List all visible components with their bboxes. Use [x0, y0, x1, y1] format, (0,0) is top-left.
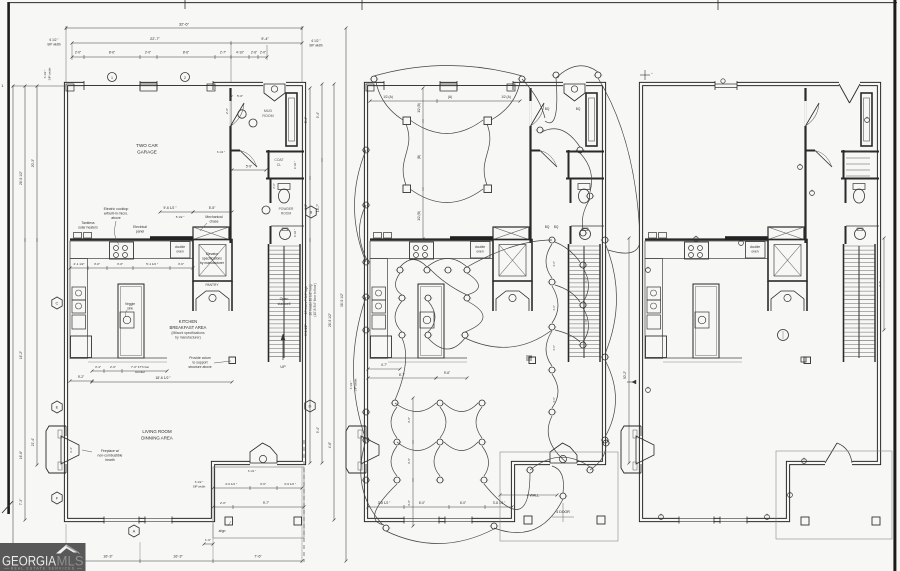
- right plan outlet symbols: [646, 117, 870, 520]
- front entry door symbol: [563, 81, 586, 88]
- garage door marker 1: [108, 73, 117, 82]
- svg-text:REAL ESTATE SERVICES: REAL ESTATE SERVICES: [11, 567, 75, 571]
- bar counter edge: [88, 357, 167, 359]
- mechanical chase: [768, 227, 804, 240]
- right porch columns: [801, 517, 809, 525]
- svg-text:8'-4": 8'-4": [304, 117, 308, 123]
- veggie sink: [695, 312, 709, 328]
- svg-text:9'-6 1/2": 9'-6 1/2": [304, 324, 308, 336]
- svg-text:3'-6": 3'-6": [178, 262, 184, 266]
- powder vanity counter: [571, 225, 604, 227]
- svg-text:6'-0": 6'-0": [460, 501, 466, 505]
- svg-text:7'-0" 47"h bar: 7'-0" 47"h bar: [131, 365, 149, 369]
- entry porch marker: [238, 110, 246, 118]
- svg-text:(10'-8 3/4" floor to floor): (10'-8 3/4" floor to floor): [313, 283, 317, 316]
- svg-text:2'-1 1/2": 2'-1 1/2": [74, 262, 85, 266]
- middle porch columns: [524, 516, 532, 524]
- double oven: [746, 242, 766, 259]
- kitchen counter back run: [70, 241, 193, 259]
- svg-text:1'-6": 1'-6": [205, 538, 211, 542]
- svg-text:COAT: COAT: [274, 158, 283, 162]
- svg-text:Veggie: Veggie: [125, 302, 135, 306]
- svg-text:1/2 (A): 1/2 (A): [383, 95, 393, 99]
- left border diagonal end mark: [2, 501, 13, 513]
- svg-text:3'-6": 3'-6": [260, 482, 266, 486]
- rear door opening: [250, 460, 277, 466]
- garage / hall interior wall: [529, 88, 531, 243]
- right porch outline: [776, 451, 892, 539]
- garage / kitchen wall: [70, 238, 193, 240]
- mud room door leaf: [531, 103, 545, 126]
- svg-text:16'-3": 16'-3": [103, 555, 113, 559]
- dishwasher: [647, 315, 661, 329]
- staircase treads: [844, 246, 875, 357]
- svg-text:GARAGE: GARAGE: [137, 150, 157, 155]
- svg-text:BQ: BQ: [545, 107, 550, 111]
- svg-text:4'-6": 4'-6": [552, 305, 556, 311]
- garage ceiling light 3: [403, 185, 411, 193]
- hex marker D: [305, 400, 315, 412]
- svg-text:2'-0": 2'-0": [75, 51, 81, 55]
- electrical wiring curves: [354, 66, 641, 544]
- hall closet door leaf: [815, 151, 832, 168]
- middle living vertical dim: [412, 398, 414, 526]
- cooktop appliance: [410, 242, 434, 259]
- svg-text:9'-6 1/2 ": 9'-6 1/2 ": [164, 206, 178, 210]
- svg-text:3'-0 1/2 ": 3'-0 1/2 ": [284, 482, 296, 486]
- fireplace: [346, 426, 366, 473]
- top border tick 2: [361, 0, 363, 10]
- kitchen sinks: [372, 287, 386, 300]
- garage corner dims: [230, 97, 232, 126]
- sheet left border line: [7, 2, 10, 514]
- kitchen counter back run: [370, 241, 493, 259]
- overall width dim 32'-6": [66, 27, 302, 29]
- svg-text:9'-4": 9'-4": [261, 37, 269, 41]
- stair hall wall: [268, 244, 270, 362]
- left porch roof dashed line: [303, 440, 305, 562]
- staircase side rails: [874, 244, 876, 362]
- staircase treads: [569, 246, 600, 357]
- dim extension verticals top: [65, 28, 67, 82]
- middle porch outline: [500, 452, 618, 541]
- triple line symbol: [526, 355, 532, 357]
- mud room door leaf: [231, 103, 245, 126]
- svg-text:3'-8 1/2 ": 3'-8 1/2 ": [493, 501, 506, 505]
- svg-text:2'-0": 2'-0": [110, 365, 116, 369]
- rear door symbol: [250, 443, 277, 463]
- tankless water heaters: [649, 233, 657, 239]
- mud room bench cabinet: [286, 93, 297, 146]
- svg-text:by manufacturer): by manufacturer): [175, 336, 201, 340]
- svg-text:4'-0": 4'-0": [304, 204, 308, 210]
- powder door marker: [262, 206, 270, 214]
- electrical outlets middle plan: [362, 72, 610, 531]
- elevator shaft: [768, 240, 807, 282]
- kitchen side counter: [370, 259, 388, 359]
- entry hall wall: [806, 150, 815, 152]
- svg-text:2'-6": 2'-6": [272, 183, 276, 189]
- svg-text:3'-6": 3'-6": [407, 417, 411, 423]
- electrical panel (dark): [725, 236, 768, 240]
- svg-text:(A): (A): [448, 95, 452, 99]
- kitchen sinks: [647, 287, 661, 300]
- bottom dim line: [66, 560, 302, 562]
- svg-text:1/2 (B): 1/2 (B): [417, 211, 421, 221]
- watermark background box: [0, 543, 86, 571]
- powder vanity counter: [271, 225, 304, 227]
- garage / kitchen wall: [645, 238, 768, 240]
- rear windows pair: [104, 517, 139, 523]
- powder room lower wall: [845, 226, 847, 244]
- svg-text:32'-6": 32'-6": [179, 22, 190, 27]
- svg-text:chase: chase: [209, 220, 218, 224]
- bar counter edge: [388, 357, 467, 359]
- double oven: [471, 242, 491, 259]
- left porch columns: [225, 517, 233, 525]
- dim 9'-2": [70, 380, 92, 382]
- hex marker E: [52, 401, 62, 413]
- svg-text:8'-6": 8'-6": [183, 51, 189, 55]
- rear door opening: [825, 460, 852, 466]
- stair hall wall: [568, 244, 570, 362]
- powder room wall: [841, 178, 879, 180]
- svg-text:8'-7": 8'-7": [399, 373, 405, 377]
- svg-text:4'-6": 4'-6": [552, 345, 556, 351]
- svg-text:(Milsork specifications: (Milsork specifications: [171, 331, 204, 335]
- svg-text:4'-0 1/2 ": 4'-0 1/2 ": [225, 482, 237, 486]
- cooktop appliance: [685, 242, 709, 259]
- svg-text:Open: Open: [280, 297, 289, 301]
- right plan linen shelves: [846, 152, 870, 176]
- exterior wall outline: [641, 84, 879, 520]
- svg-text:SIP width: SIP width: [309, 44, 323, 48]
- svg-text:Mechanical: Mechanical: [205, 215, 222, 219]
- svg-text:4'-6": 4'-6": [552, 261, 556, 267]
- kitchen sinks: [72, 287, 86, 300]
- svg-text:specifications: specifications: [202, 257, 222, 261]
- svg-text:9 1/2 ": 9 1/2 ": [293, 161, 297, 169]
- svg-text:Elevator: Elevator: [206, 252, 219, 256]
- pantry door symbol: [196, 291, 229, 311]
- svg-text:double: double: [475, 245, 485, 249]
- powder room wall: [266, 178, 304, 180]
- svg-text:Tankless: Tankless: [81, 221, 94, 225]
- hex marker F: [52, 492, 62, 504]
- top segment dims: [72, 56, 267, 58]
- svg-text:5'-9": 5'-9": [246, 165, 252, 169]
- svg-text:sink: sink: [127, 307, 133, 311]
- garage door opening 1: [384, 81, 440, 88]
- svg-text:non-combustible: non-combustible: [98, 454, 123, 458]
- kitchen dim 9'-6 1/2": [160, 211, 193, 213]
- right vertical dim c: [333, 84, 335, 520]
- svg-text:Fireplace w/: Fireplace w/: [101, 449, 119, 453]
- svg-text:LIVING ROOM: LIVING ROOM: [142, 429, 172, 434]
- svg-text:9'-6": 9'-6": [444, 371, 450, 375]
- column leader: [214, 361, 231, 363]
- svg-text:4'-6": 4'-6": [328, 442, 332, 448]
- svg-text:16'-6": 16'-6": [19, 450, 23, 459]
- rear windows pair: [679, 517, 714, 523]
- right plan left wall tick: [627, 381, 636, 383]
- svg-text:60'-2": 60'-2": [7, 295, 11, 304]
- right plan ceiling fan circle: [778, 330, 789, 341]
- svg-text:6 1/2 ": 6 1/2 ": [43, 70, 47, 79]
- dim 18'-6 1/2": [92, 381, 232, 383]
- rear door symbol: [550, 443, 577, 463]
- svg-text:6 1/2 ": 6 1/2 ": [195, 480, 204, 484]
- svg-text:17 risers 7 3/4" high: 17 risers 7 3/4" high: [304, 286, 308, 314]
- svg-text:UP: UP: [280, 365, 286, 369]
- svg-text:3'-6": 3'-6": [407, 500, 411, 506]
- svg-text:C: C: [56, 301, 59, 306]
- dishwasher: [72, 315, 86, 329]
- svg-text:DINNING AREA: DINNING AREA: [141, 436, 173, 441]
- rear windows pair: [404, 517, 439, 523]
- toilet: [578, 184, 590, 190]
- exterior wall outline: [366, 84, 604, 520]
- staircase side rails: [299, 244, 301, 362]
- toilet: [278, 184, 290, 190]
- svg-text:double: double: [750, 245, 760, 249]
- entry hall wall: [531, 150, 540, 152]
- svg-text:4'-6": 4'-6": [552, 397, 556, 403]
- svg-text:SIP width: SIP width: [48, 67, 52, 80]
- tankless water heaters: [74, 233, 82, 239]
- fireplace leader arrow: [82, 450, 92, 452]
- svg-text:9'-2": 9'-2": [78, 375, 84, 379]
- mech chase leader: [200, 223, 207, 231]
- svg-text:9'-7": 9'-7": [263, 501, 269, 505]
- left vertical dim 2: [24, 86, 26, 520]
- garage door opening 2: [457, 81, 513, 88]
- garage / hall interior wall: [229, 88, 231, 243]
- island cabinet: [118, 284, 144, 358]
- svg-text:3'-4": 3'-4": [95, 365, 101, 369]
- island cabinet: [418, 284, 444, 358]
- svg-text:2'-0": 2'-0": [145, 51, 151, 55]
- kitchen side counter: [70, 259, 88, 359]
- pantry door symbol: [496, 291, 529, 311]
- svg-text:double: double: [175, 245, 185, 249]
- garage light dim vertical: [422, 88, 424, 239]
- svg-text:BQ: BQ: [545, 225, 550, 229]
- svg-text:Provide colum: Provide colum: [189, 356, 211, 360]
- svg-text:5'-5": 5'-5": [209, 206, 216, 210]
- garage / kitchen wall: [370, 238, 493, 240]
- electrical panel (dark): [150, 236, 193, 240]
- svg-text:4'-10": 4'-10": [236, 51, 244, 55]
- svg-text:7'-6": 7'-6": [254, 555, 262, 559]
- svg-text:KITCHEN: KITCHEN: [179, 319, 197, 324]
- porch column dim: [204, 543, 213, 545]
- svg-text:A: A: [133, 529, 136, 534]
- svg-text:28'-9 1/2": 28'-9 1/2": [328, 312, 332, 327]
- garage door pier marks: [140, 84, 157, 91]
- svg-text:CL: CL: [277, 163, 281, 167]
- svg-text:6 1/2 ": 6 1/2 ": [248, 469, 256, 473]
- left extension line: [12, 85, 66, 87]
- veggie sink: [420, 312, 434, 328]
- svg-text:2'-0": 2'-0": [220, 501, 226, 505]
- svg-text:16 treads 10 1/2" long: 16 treads 10 1/2" long: [309, 284, 313, 315]
- svg-text:SIP width: SIP width: [47, 43, 61, 47]
- svg-text:3'-6": 3'-6": [407, 458, 411, 464]
- svg-text:oven: oven: [176, 250, 183, 254]
- svg-text:POWDER: POWDER: [279, 207, 294, 211]
- garage door pier marks: [440, 84, 457, 91]
- elevator shaft: [193, 240, 232, 282]
- island cabinet: [693, 284, 719, 358]
- powder vanity counter: [846, 225, 879, 227]
- mud room door leaf: [806, 103, 820, 126]
- hex marker A: [129, 525, 139, 537]
- coat closet: [266, 151, 304, 153]
- veggie sink: [120, 312, 134, 328]
- svg-text:3'-0": 3'-0": [117, 262, 123, 266]
- garage ceiling light 4: [484, 185, 492, 193]
- structural column: [804, 357, 811, 364]
- structural column: [529, 357, 536, 364]
- svg-text:5'-1 1/2 ": 5'-1 1/2 ": [146, 262, 158, 266]
- stair hall wall: [843, 244, 845, 362]
- svg-text:(B): (B): [417, 155, 421, 159]
- dim 22'-7" and 9'-4": [72, 42, 302, 44]
- kitchen counter dims: [70, 267, 193, 269]
- svg-text:5'-0": 5'-0": [237, 94, 243, 98]
- pantry door symbol: [771, 291, 804, 311]
- mechanical chase: [493, 227, 529, 240]
- svg-text:Electric cooktop: Electric cooktop: [104, 207, 129, 211]
- svg-text:E: E: [56, 405, 59, 410]
- pantry walls: [806, 281, 808, 311]
- cooktop leader line: [115, 221, 119, 245]
- svg-text:8'-6": 8'-6": [109, 51, 115, 55]
- tankless water heaters: [374, 233, 382, 239]
- svg-text:ROOM: ROOM: [281, 212, 292, 216]
- window jambs: [714, 81, 716, 90]
- svg-text:stairwell: stairwell: [278, 302, 291, 306]
- entry hall wall: [231, 150, 240, 152]
- bottom dim extension lines: [65, 524, 67, 563]
- svg-text:4'-7": 4'-7": [381, 363, 387, 367]
- svg-text:38'-9 1/2": 38'-9 1/2": [340, 292, 344, 307]
- hall width dim: [232, 169, 266, 171]
- garage door opening 1: [84, 81, 140, 88]
- svg-text:6'-0": 6'-0": [419, 501, 425, 505]
- kitchen counter back run: [645, 241, 768, 259]
- fireplace: [46, 426, 66, 473]
- svg-text:28'-9 1/2": 28'-9 1/2": [19, 170, 23, 185]
- garage door opening 2: [157, 81, 213, 88]
- mechanical chase: [193, 227, 229, 240]
- coat closet: [566, 151, 604, 153]
- toilet: [853, 184, 865, 190]
- staircase side rails: [599, 244, 601, 362]
- pantry walls: [531, 281, 533, 311]
- svg-text:3'-0": 3'-0": [94, 262, 100, 266]
- svg-text:9'-4": 9'-4": [316, 427, 320, 433]
- pantry walls: [231, 281, 233, 311]
- garage / hall interior wall: [804, 88, 806, 243]
- exterior wall outline: [66, 84, 304, 520]
- svg-text:4'-8": 4'-8": [584, 319, 588, 325]
- hall closet door leaf: [540, 151, 557, 168]
- front entry door symbol: [263, 81, 286, 88]
- svg-text:16'-2": 16'-2": [19, 350, 23, 359]
- svg-text:w/built-in micro.: w/built-in micro.: [104, 212, 128, 216]
- bar counter edge: [663, 357, 742, 359]
- watermark chevron swoosh: [56, 545, 79, 554]
- hall marker circle: [249, 119, 257, 127]
- front entry door swing (open V): [839, 81, 860, 88]
- svg-text:to support: to support: [192, 361, 207, 365]
- svg-text:2'-7": 2'-7": [220, 51, 226, 55]
- middle right rotated dim: [628, 238, 630, 463]
- mud room bench cabinet: [861, 93, 872, 146]
- svg-text:above: above: [111, 216, 121, 220]
- svg-text:hearth: hearth: [105, 458, 115, 462]
- middle plan bottom dims: [368, 506, 512, 508]
- svg-text:16'-7": 16'-7": [316, 204, 320, 212]
- garage ceiling light 2: [484, 117, 492, 125]
- svg-text:ROOM: ROOM: [262, 114, 273, 118]
- svg-text:TWO CAR: TWO CAR: [136, 143, 158, 148]
- kitchen side counter: [645, 259, 663, 359]
- svg-text:2'-6": 2'-6": [251, 51, 257, 55]
- svg-text:SIP width: SIP width: [193, 485, 206, 489]
- svg-text:align: align: [219, 529, 226, 533]
- front window opening: [715, 81, 737, 87]
- svg-text:22'-7": 22'-7": [150, 37, 160, 41]
- svg-text:1/2 (B): 1/2 (B): [417, 103, 421, 113]
- svg-text:PANTRY: PANTRY: [205, 283, 219, 287]
- svg-text:2: 2: [184, 76, 186, 80]
- svg-text:2'-0": 2'-0": [260, 51, 266, 55]
- hall closet door leaf: [240, 151, 257, 168]
- garage ceiling light 1: [403, 117, 411, 125]
- top border tick 1: [184, 0, 186, 9]
- svg-text:5 1/2 ": 5 1/2 ": [176, 215, 185, 219]
- powder room lower wall: [570, 226, 572, 244]
- svg-text:3'-8 1/2 ": 3'-8 1/2 ": [378, 501, 391, 505]
- refrigerator: [371, 336, 392, 358]
- svg-text:6 1/2 ": 6 1/2 ": [49, 38, 58, 42]
- svg-text:MUD: MUD: [264, 109, 273, 113]
- electrical panel (dark): [450, 236, 493, 240]
- svg-text:BREAKFAST AREA: BREAKFAST AREA: [170, 325, 207, 330]
- refrigerator: [71, 336, 92, 358]
- staircase treads: [269, 246, 300, 357]
- coat closet: [841, 151, 879, 153]
- fireplace: [621, 426, 641, 473]
- bar counter dims: [92, 370, 167, 372]
- powder room wall: [566, 178, 604, 180]
- svg-text:panel: panel: [136, 230, 145, 234]
- right plan right dim: [883, 238, 885, 330]
- right vertical dim d: [345, 28, 347, 561]
- rear door opening: [550, 460, 577, 466]
- left vertical dim far: [12, 86, 14, 561]
- right vertical dim a: [309, 88, 311, 463]
- bottom right dims row1: [213, 487, 302, 489]
- svg-text:by manufacturer: by manufacturer: [200, 261, 225, 265]
- dishwasher: [372, 315, 386, 329]
- hex marker B: [306, 206, 316, 218]
- double oven: [171, 242, 191, 259]
- right plan small box marker: [801, 357, 806, 362]
